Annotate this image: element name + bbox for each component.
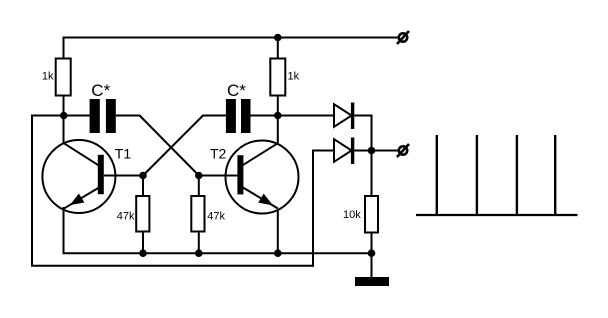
resistor R4 [191,196,204,232]
wire R5 bottom lead [371,233,373,254]
resistor R2 [270,59,285,96]
node T2 emitter rail junction dot [274,249,282,257]
svg-text:T1: T1 [115,145,132,161]
svg-text:47k: 47k [117,211,135,223]
terminal P2 output [397,144,409,157]
wire T2 emitter vertical [277,210,279,254]
wire C1 right lead [116,115,141,117]
wire C2 right lead [251,115,278,117]
node R5 ground junction dot [368,249,376,257]
svg-text:10k: 10k [343,209,361,221]
transistor T2 collector line [243,143,278,165]
node R3 emitter rail junction dot [139,249,147,257]
wire R2 top lead [277,37,279,59]
resistor R1 [56,59,71,96]
svg-text:C*: C* [227,81,246,100]
svg-text:1k: 1k [288,70,300,82]
node T2 base junction dot [195,172,203,180]
transistor T2 emitter line [243,188,278,209]
wire D1 cathode lead [354,115,372,117]
capacitor C2 right plate [241,99,251,133]
waveform pulse 2 [476,135,478,215]
wire T2 base lead [199,175,238,177]
wire R1 top lead [63,37,65,59]
wire R4 bottom lead [198,232,200,254]
wire node A to feedback branch [31,115,64,117]
svg-text:T2: T2 [210,145,227,161]
node A junction dot [60,112,68,120]
wire R2 bottom lead [277,96,279,116]
node R4 emitter rail junction dot [195,249,203,257]
waveform baseline [416,214,578,216]
ground symbol [355,277,389,286]
wire D2 cathode lead to output node [354,150,371,152]
node B junction dot [274,112,282,120]
svg-text:C*: C* [91,81,110,100]
wire emitter ground rail [63,252,372,254]
diode D2 cathode bar [351,138,354,165]
transistor T2 emitter arrow [259,195,271,204]
wire T1 emitter vertical [63,207,65,253]
wire output lead [372,150,399,152]
transistor T1 emitter line [64,188,99,209]
wire T1 base lead [104,175,143,177]
transistor T2 circle [226,141,299,214]
diode D2 triangle [334,139,352,162]
wire T2 collector vertical [277,116,279,144]
wire R4 top lead [198,176,200,197]
wire node A to C1 left plate [64,115,90,117]
svg-text:1k: 1k [42,70,54,82]
capacitor C1 left plate [90,99,100,133]
node supply rail junction dot [274,34,282,42]
resistor R5 [365,196,378,233]
wire C2 left lead [202,115,226,117]
transistor T2 base bar [237,155,243,194]
capacitor C2 left plate [226,99,236,133]
waveform pulse 1 [436,135,438,215]
transistor T1 emitter arrow [72,195,84,204]
wire diagonal C1 to T2 base [140,116,199,176]
waveform pulse 3 [516,135,518,215]
terminal P1 supply [397,31,409,44]
transistor T1 collector line [64,143,99,165]
diode D1 triangle [334,104,352,127]
node T1 base junction dot [139,172,147,180]
wire R3 bottom lead [142,232,144,254]
transistor T1 base bar [98,155,104,194]
wire feedback bottom run [31,265,314,267]
wire feedback left vertical [31,115,33,266]
diode D1 cathode bar [351,103,354,130]
wire ground lead [371,253,373,277]
wire T1 collector vertical [63,116,65,144]
wire D1 anode lead [278,115,334,117]
wire top supply rail [64,37,399,39]
wire D2 anode lead [312,150,334,152]
wire D1 to output node vertical [371,115,373,151]
wire feedback right vertical [312,150,314,267]
wire R1 bottom lead [63,96,65,116]
wire R5 top lead [371,151,373,197]
capacitor C1 right plate [106,99,116,133]
transistor T1 circle [42,140,115,213]
node output junction dot [368,147,376,155]
wire diagonal C2 to T1 base [143,116,203,176]
wire R3 top lead [142,176,144,197]
waveform pulse 4 [554,135,556,215]
svg-text:47k: 47k [207,211,225,223]
resistor R3 [136,196,149,232]
